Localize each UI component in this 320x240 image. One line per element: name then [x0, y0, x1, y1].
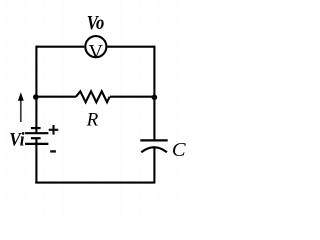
svg-text:Vi: Vi: [9, 128, 25, 149]
svg-text:V: V: [89, 41, 104, 63]
svg-text:R: R: [86, 109, 99, 130]
svg-text:C: C: [172, 139, 186, 161]
svg-text:Vo: Vo: [87, 12, 104, 34]
